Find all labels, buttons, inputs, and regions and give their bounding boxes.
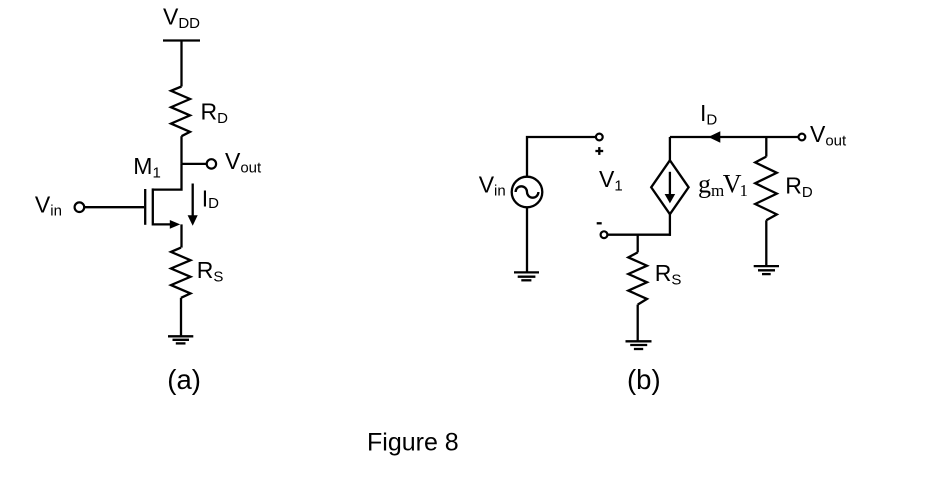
wire bottom node (b) xyxy=(607,234,671,236)
svg-text:ID: ID xyxy=(202,185,219,212)
wire Vin source to ground (b) xyxy=(526,207,528,272)
current arrow ID (b) xyxy=(708,131,720,143)
label Vout (a) xyxy=(225,148,262,177)
label ID (b) xyxy=(700,100,717,129)
svg-text:Vout: Vout xyxy=(225,148,262,177)
svg-text:Vout: Vout xyxy=(810,121,847,150)
VDD supply bar xyxy=(163,39,200,41)
resistor R_D (b) xyxy=(755,157,777,221)
svg-text:(a): (a) xyxy=(167,364,201,395)
svg-text:gmV1: gmV1 xyxy=(698,170,748,201)
svg-text:Vin: Vin xyxy=(35,191,62,219)
node Vout terminal (b) xyxy=(799,134,806,141)
svg-text:M1: M1 xyxy=(133,153,161,182)
net VDD label xyxy=(163,4,200,33)
ground Vin (b) xyxy=(514,272,539,280)
label ID (a) xyxy=(202,185,219,212)
wire Vin to + terminal (b) xyxy=(527,137,596,177)
node Vout terminal (a) xyxy=(207,159,216,168)
svg-text:(b): (b) xyxy=(627,364,661,395)
wire source M1 to R_S xyxy=(180,224,182,247)
wire Vout stub (a) xyxy=(182,163,207,165)
svg-text:V1: V1 xyxy=(599,166,623,195)
svg-text:VDD: VDD xyxy=(163,4,200,33)
label gmV1 xyxy=(698,170,748,201)
label (a) xyxy=(167,364,201,395)
wire diamond to top net (b) xyxy=(669,137,671,160)
current arrow ID (a) xyxy=(188,184,198,226)
wire top net (b) xyxy=(670,136,799,138)
ground (a) xyxy=(168,336,193,343)
label R_S (b) xyxy=(655,260,682,289)
svg-text:RD: RD xyxy=(201,99,229,128)
label Vout (b) xyxy=(810,121,847,150)
resistor R_D (a) xyxy=(171,87,190,137)
label Vin (a) xyxy=(35,191,62,219)
wire R_D to ground (b) xyxy=(765,220,767,266)
label R_D (b) xyxy=(785,172,813,201)
wire R_S to ground (a) xyxy=(180,298,182,337)
ground R_D (b) xyxy=(754,266,779,274)
label Vin (b) xyxy=(479,171,506,199)
wire top net to R_D (b) xyxy=(765,137,767,157)
wire R_S to ground (b) xyxy=(637,305,639,342)
controlled source gmV1 diamond xyxy=(651,160,688,214)
svg-text:Figure 8: Figure 8 xyxy=(367,429,459,457)
wire gate (a) xyxy=(85,206,144,208)
label R_D (a) xyxy=(201,99,229,128)
svg-text:ID: ID xyxy=(700,100,717,129)
wire VDD bar to R_D xyxy=(180,41,182,87)
wire diamond to bottom node (b) xyxy=(669,214,671,236)
wire R_D to Vout node (a) xyxy=(180,136,182,164)
wire drain M1 xyxy=(153,164,182,190)
node minus terminal (b) xyxy=(601,231,608,238)
svg-text:RS: RS xyxy=(655,260,682,289)
label M1 xyxy=(133,153,161,182)
ground R_S (b) xyxy=(626,341,652,349)
label (b) xyxy=(627,364,661,395)
label R_S (a) xyxy=(197,257,224,286)
node + terminal (b) xyxy=(596,134,603,141)
transistor M1 xyxy=(145,188,180,228)
resistor R_S (b) xyxy=(628,252,647,304)
node Vin terminal (a) xyxy=(75,202,85,212)
wire to R_S (b) xyxy=(637,235,639,253)
resistor R_S (a) xyxy=(171,248,191,298)
svg-text:Vin: Vin xyxy=(479,171,506,199)
svg-text:RS: RS xyxy=(197,257,224,286)
svg-text:RD: RD xyxy=(785,172,813,201)
caption Figure 8 xyxy=(367,429,459,457)
label minus (b) xyxy=(597,222,602,224)
label V1 (b) xyxy=(599,166,623,195)
source Vin (b) xyxy=(512,177,543,208)
label + (b) xyxy=(595,147,603,155)
